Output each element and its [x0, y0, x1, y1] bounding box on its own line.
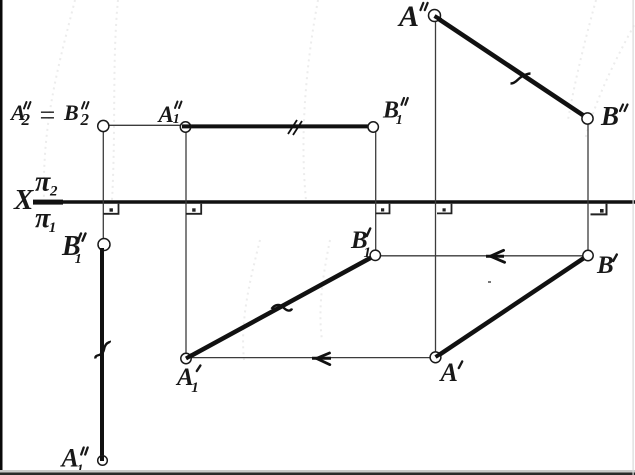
point B1': [370, 250, 380, 260]
label B1': [350, 227, 371, 261]
wire horizontal B1' to B' with arrow: [375, 250, 588, 262]
label pi1: [35, 203, 56, 236]
svg-text:B: B: [600, 101, 619, 131]
label A1': [175, 364, 200, 396]
faint scan arc 4: [568, 0, 596, 120]
left border bar: [0, 0, 3, 475]
label B1'' top right: [382, 97, 408, 128]
label A2''=B2'': [9, 100, 90, 132]
faint scan arc 3: [303, 0, 318, 200]
point B'': [582, 113, 593, 124]
point A': [430, 352, 441, 363]
label A': [439, 358, 463, 387]
right-angle mark at x=103: [103, 204, 118, 214]
right faint edge line: [633, 0, 634, 475]
segment B1''A1'' vertical left: [100, 249, 104, 460]
faint scan arc 1: [44, 0, 75, 200]
wire vertical A'' to A': [435, 16, 437, 358]
point A1'' bottom: [98, 456, 108, 466]
faint scan arc 7: [320, 240, 330, 340]
svg-text:A: A: [439, 358, 458, 387]
svg-text:1: 1: [173, 112, 180, 127]
faint scan arc 6: [243, 240, 260, 360]
tick tilde on B1''A1'': [95, 341, 109, 359]
svg-text:1: 1: [364, 245, 372, 261]
wire vertical A2''B2'' to B1'': [102, 126, 104, 245]
tick slash on A''B'': [511, 74, 531, 84]
point A1': [181, 353, 191, 363]
wire vertical B'' to B': [587, 119, 589, 256]
fraction bar of pi2/pi1: [33, 200, 63, 205]
label B1'' lower left: [61, 231, 86, 267]
bottom border strip: [0, 470, 635, 473]
svg-text:2: 2: [80, 110, 90, 129]
scan speck: [488, 281, 491, 283]
svg-text:2: 2: [49, 184, 58, 200]
point A'': [429, 10, 441, 22]
point B1'' lower: [98, 239, 110, 251]
svg-text:B: B: [63, 100, 79, 125]
svg-text:B: B: [596, 252, 614, 279]
label B'': [600, 101, 628, 131]
segment A''B'': [434, 16, 586, 118]
svg-text:1: 1: [396, 113, 403, 128]
svg-text:1: 1: [49, 220, 57, 236]
svg-text:A: A: [397, 0, 419, 33]
label A'': [397, 0, 428, 33]
svg-text:X: X: [13, 184, 34, 216]
tick tilde on A1'B1': [272, 305, 293, 311]
svg-text:=: =: [38, 101, 57, 132]
label A1'' bottom: [60, 444, 88, 475]
point A2''=B2'': [98, 120, 109, 131]
tick double slash on A1''B1'': [288, 120, 302, 135]
wire vertical A1'' to A1': [185, 127, 187, 359]
right-angle mark at x=590: [591, 204, 607, 215]
wire horizontal A1' to A' with arrow: [186, 353, 435, 365]
wire vertical B1'' to B1': [375, 127, 377, 255]
svg-text:2: 2: [21, 110, 31, 129]
label pi2: [35, 166, 58, 199]
wire horizontal A2''B2'' to A1'': [103, 124, 185, 126]
segment A1''B1'' (frontal proj of rotated): [186, 124, 373, 128]
label B': [596, 252, 617, 279]
svg-text:A: A: [157, 102, 174, 127]
point B1'' top: [368, 122, 378, 132]
svg-text:1: 1: [75, 252, 82, 267]
X axis: [33, 200, 635, 204]
right-angle mark at x=186: [186, 204, 201, 214]
right-angle mark at x=437: [437, 204, 452, 214]
right-angle mark at x=376: [376, 204, 390, 214]
segment A'B': [436, 256, 587, 357]
faint scan arc 5: [585, 20, 635, 140]
faint scan arc 2: [112, 0, 118, 200]
label A1'' top: [157, 102, 182, 128]
segment A1'B1': [187, 256, 374, 358]
point A1'' top: [180, 122, 190, 132]
point B': [583, 250, 593, 260]
svg-text:π: π: [35, 166, 51, 197]
svg-text:1: 1: [191, 380, 199, 396]
